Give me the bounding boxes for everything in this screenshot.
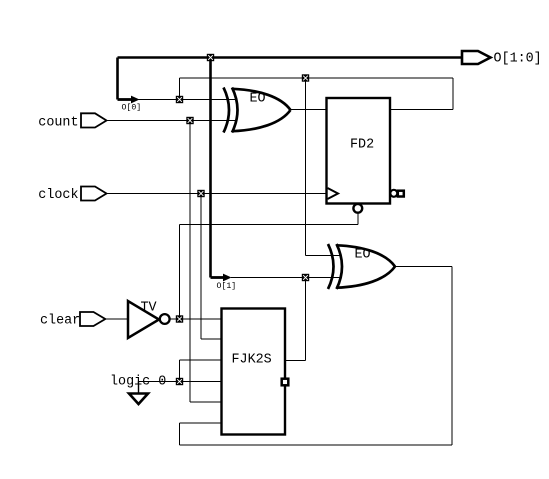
wire clock net vertical branch to FJK2S: [201, 194, 222, 340]
svg-text:FJK2S: FJK2S: [232, 353, 272, 368]
wire count net vertical branch to FJK2S: [190, 121, 222, 403]
wire bus left vertical drop to O[0] ripper: [116, 58, 119, 100]
wire O[1] ripper line to XOR2 bottom input: [231, 277, 342, 279]
svg-text:clock: clock: [38, 188, 78, 203]
wire clear port to inverter: [105, 318, 128, 320]
inverter TV output bubble: [160, 314, 170, 324]
FD2 QN unconnected pin marker: [398, 191, 404, 197]
xor gate EO2: [328, 244, 395, 289]
wire logic 0 net horizontal: [139, 381, 222, 383]
input port clock: [81, 187, 107, 201]
FD2 CD bubble: [353, 204, 362, 213]
svg-text:TV: TV: [141, 301, 157, 316]
wire bus O[1:0] top horizontal: [118, 56, 463, 59]
output port O[1:0]: [462, 51, 491, 64]
svg-text:EO: EO: [355, 248, 371, 263]
wire clock net horizontal: [107, 193, 327, 195]
inverter TV triangle: [128, 301, 159, 338]
input port count: [81, 113, 107, 127]
svg-text:O[1]: O[1]: [217, 281, 237, 291]
wire bus vertical drop to O[1] ripper: [209, 58, 212, 278]
junction clock net: [197, 190, 204, 197]
FJK2S unconnected pin marker right: [282, 379, 289, 386]
junction O0 net on y99 line: [176, 96, 183, 103]
svg-text:FD2: FD2: [350, 138, 374, 153]
logic 0 constant symbol: [129, 382, 148, 405]
junction O0 net on y78 line: [302, 74, 309, 81]
svg-text:logic 0: logic 0: [110, 375, 166, 390]
wire XOR1 output to FD2 D: [290, 109, 327, 111]
wire clear_n branch to FD2 CD bubble: [180, 213, 359, 320]
flip-flop FJK2S box: [222, 309, 286, 435]
wire logic 0 branch to FJK2S second input: [180, 360, 222, 382]
svg-text:EO: EO: [250, 92, 266, 107]
bus ripper arrow O[0]: [118, 96, 140, 104]
FD2 clock triangle: [328, 188, 339, 199]
wire O[0] ripper line to XOR1 input: [138, 99, 237, 101]
svg-text:O[0]: O[0]: [122, 103, 142, 113]
input port clear: [80, 312, 105, 326]
junction O1 net: [302, 274, 309, 281]
FD2 QN bubble: [390, 190, 397, 197]
junction count net: [186, 117, 193, 124]
bus ripper arrow O[1]: [211, 274, 232, 282]
junction clear_n net: [176, 315, 183, 322]
wire O[0] net from FD2 Q loop: [180, 78, 454, 110]
junction logic0 net: [176, 378, 183, 385]
flip-flop FD2 box: [327, 98, 391, 204]
wire FJK2S Q up to O[1] net: [285, 278, 306, 361]
wire inverter output to FJK2S CD: [170, 318, 222, 320]
xor gate EO1: [224, 88, 291, 133]
svg-text:O[1:0]: O[1:0]: [494, 52, 542, 67]
svg-text:count: count: [38, 116, 78, 131]
wire O[0] net branch to XOR2 top input: [306, 78, 342, 256]
junction bus ripper top: [207, 54, 214, 61]
wire XOR2 output feedback loop to FJK2S J input: [180, 267, 453, 446]
svg-text:clear: clear: [40, 314, 80, 329]
wire count net horizontal: [107, 120, 238, 122]
